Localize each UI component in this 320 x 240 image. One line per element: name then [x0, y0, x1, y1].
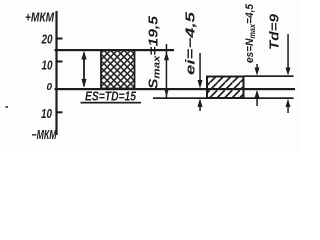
svg-text:0: 0 [47, 81, 53, 93]
svg-text:ES=TD=15: ES=TD=15 [85, 89, 137, 104]
svg-text:Td=9: Td=9 [267, 13, 282, 50]
svg-text:+МКМ: +МКМ [25, 10, 55, 25]
svg-text:20: 20 [41, 32, 53, 47]
svg-text:10: 10 [42, 58, 54, 73]
svg-text:−МКМ: −МКМ [32, 128, 57, 142]
svg-text:10: 10 [41, 106, 53, 121]
svg-text:ei=−4,5: ei=−4,5 [183, 11, 198, 75]
svg-text:es=Nmax=4,5: es=Nmax=4,5 [244, 3, 257, 63]
svg-text:Smax=19,5: Smax=19,5 [146, 15, 163, 89]
